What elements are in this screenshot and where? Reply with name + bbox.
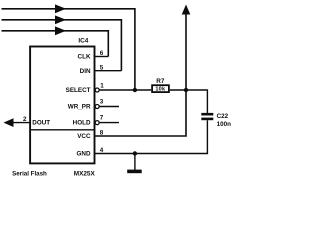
pin 7 stub wire (HOLD) xyxy=(99,122,119,124)
svg-text:IC4: IC4 xyxy=(78,37,88,44)
svg-text:3: 3 xyxy=(100,98,104,105)
capacitor C22 plates xyxy=(201,113,213,120)
active-low bubble HOLD xyxy=(95,121,99,125)
output arrow DOUT (left) xyxy=(4,118,14,127)
svg-text:DOUT: DOUT xyxy=(32,120,50,127)
svg-text:SELECT: SELECT xyxy=(66,87,91,94)
pin 3 stub wire (WR_PR) xyxy=(99,106,119,108)
svg-text:1: 1 xyxy=(100,83,104,90)
wire power rail to C22 top xyxy=(186,90,207,113)
svg-text:C22: C22 xyxy=(217,113,229,120)
svg-text:DIN: DIN xyxy=(80,68,91,75)
svg-text:GND: GND xyxy=(77,151,91,158)
wire: top signal line 3 (to CLK) xyxy=(2,31,109,57)
svg-text:HOLD: HOLD xyxy=(73,120,91,127)
ground stem wire xyxy=(134,154,136,171)
IC4 internal separator xyxy=(30,129,94,131)
wire R7 to power rail xyxy=(170,89,186,91)
svg-text:Serial Flash: Serial Flash xyxy=(12,171,47,178)
signal-flow arrow on line 2 xyxy=(55,15,66,24)
svg-text:2: 2 xyxy=(23,116,27,123)
power rail VCC: vertical wire with VCC pin 8 connection xyxy=(95,14,186,137)
svg-text:WR_PR: WR_PR xyxy=(68,104,91,111)
svg-text:5: 5 xyxy=(100,64,104,71)
svg-text:4: 4 xyxy=(100,147,104,154)
pin 6 wire (CLK) xyxy=(95,56,108,58)
junction dot GND/ground symbol xyxy=(133,151,137,155)
signal-flow arrow on line 1 xyxy=(55,4,66,13)
svg-text:VCC: VCC xyxy=(77,133,91,140)
pin 2 wire (DOUT) xyxy=(13,122,30,124)
wire: top signal line 1 (to SELECT) xyxy=(2,9,135,90)
wire: top signal line 2 (to DIN) xyxy=(2,20,122,71)
pin 4 wire (GND to C22 bottom) xyxy=(95,120,207,153)
svg-text:6: 6 xyxy=(100,50,104,57)
svg-text:8: 8 xyxy=(100,129,104,136)
resistor R7 body xyxy=(152,85,169,92)
pin 5 wire (DIN) xyxy=(95,70,121,72)
active-low bubble WR_PR xyxy=(95,105,99,109)
signal-flow arrow on line 3 xyxy=(55,26,66,35)
ground symbol xyxy=(127,170,142,174)
svg-text:100n: 100n xyxy=(217,121,232,128)
active-low bubble SELECT xyxy=(95,88,99,92)
junction dot SELECT/line1 xyxy=(133,88,137,92)
svg-text:CLK: CLK xyxy=(78,54,91,61)
svg-text:MX25X: MX25X xyxy=(74,171,96,178)
pin 1 wire (SELECT to R7) xyxy=(99,89,151,91)
svg-text:7: 7 xyxy=(100,114,104,121)
junction dot rail/R7 xyxy=(184,88,188,92)
power supply arrow (up) xyxy=(182,5,191,15)
svg-text:10k: 10k xyxy=(155,87,166,93)
svg-text:R7: R7 xyxy=(156,78,165,85)
IC4 body xyxy=(30,47,94,164)
